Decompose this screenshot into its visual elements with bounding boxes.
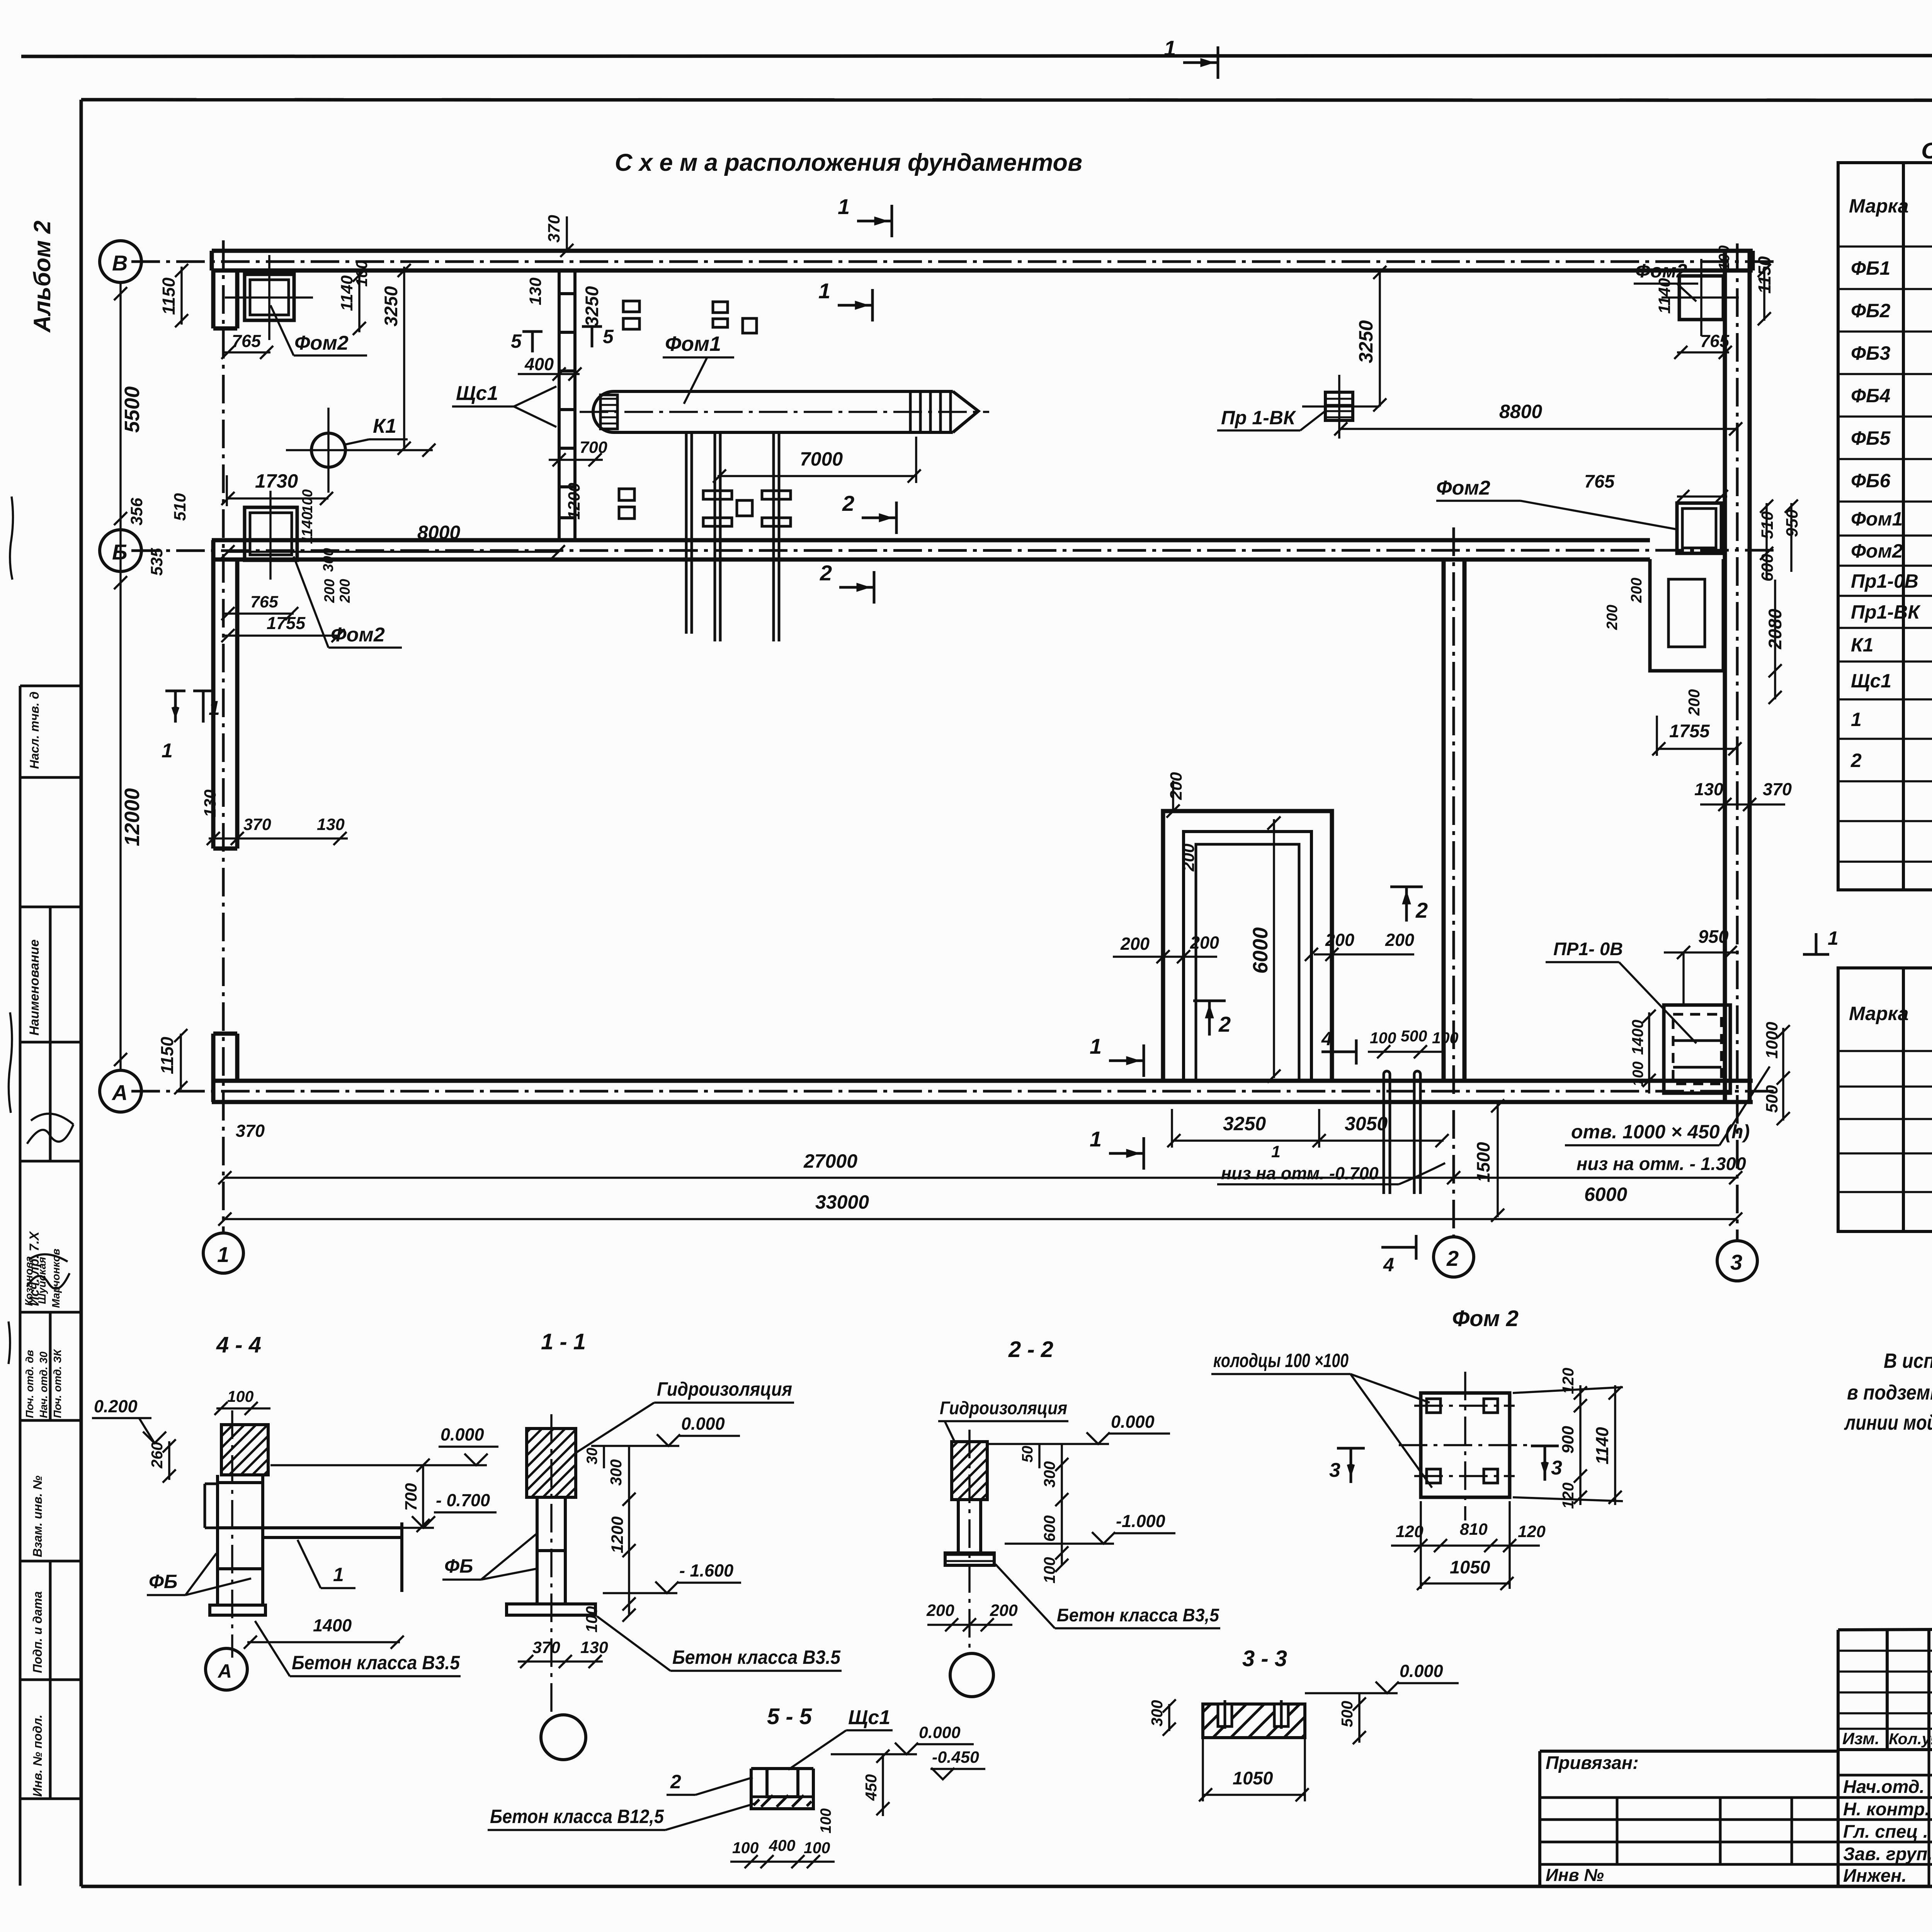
svg-text:Щс1: Щс1 — [848, 1706, 890, 1729]
dims top right: 1140,100,765,1150 — [1655, 245, 1774, 351]
svg-text:300: 300 — [1041, 1461, 1058, 1488]
svg-text:200: 200 — [337, 579, 353, 603]
fom2 detail square — [1421, 1393, 1510, 1497]
svg-text:0.200: 0.200 — [94, 1396, 138, 1416]
svg-text:200: 200 — [321, 579, 337, 603]
section mark 2 lower — [839, 571, 874, 604]
dim 1755 right — [1669, 721, 1710, 741]
svg-text:810: 810 — [1460, 1520, 1488, 1539]
svg-text:1755: 1755 — [267, 613, 306, 633]
svg-text:ФБ5: ФБ5 — [1851, 427, 1891, 449]
svg-text:765: 765 — [1584, 471, 1615, 492]
svg-text:6000: 6000 — [1249, 927, 1272, 974]
svg-text:200: 200 — [1628, 578, 1645, 603]
1-1 axis — [550, 1414, 553, 1714]
svg-text:1: 1 — [838, 194, 850, 219]
4-4 dim 1400 — [313, 1616, 352, 1635]
svg-text:0.000: 0.000 — [1400, 1661, 1443, 1681]
svg-text:8800: 8800 — [1499, 401, 1542, 422]
2-2 dims 200 200 — [926, 1601, 1018, 1620]
svg-text:1: 1 — [333, 1564, 344, 1585]
dim 765 right — [1584, 471, 1615, 492]
svg-text:Пр1-0В: Пр1-0В — [1851, 570, 1918, 592]
spec table 2 grid — [1838, 968, 1932, 1231]
1-1 level -1.600 — [679, 1561, 733, 1580]
svg-text:0.000: 0.000 — [440, 1425, 484, 1444]
svg-text:200: 200 — [1685, 689, 1703, 716]
svg-text:700: 700 — [580, 438, 607, 457]
svg-text:1200: 1200 — [565, 483, 583, 520]
spec table grid — [1838, 163, 1932, 890]
right wall — [1725, 251, 1750, 1102]
drain channels — [1384, 1071, 1420, 1194]
4-4 concrete note — [292, 1652, 460, 1673]
svg-text:370: 370 — [236, 1121, 265, 1141]
2-2 wall hatched — [952, 1442, 987, 1500]
pit Пр2 below Б at axis 3 — [1650, 559, 1723, 671]
middle pit 6000 dim — [1267, 816, 1281, 1083]
anchor bolt 1 — [703, 432, 732, 641]
svg-text:3250: 3250 — [1355, 320, 1377, 363]
svg-text:130: 130 — [317, 815, 345, 834]
2-2 concrete note — [1057, 1605, 1219, 1625]
svg-text:370: 370 — [1763, 779, 1792, 799]
svg-text:7000: 7000 — [800, 448, 843, 470]
dim 33000 — [815, 1191, 869, 1213]
hanging tie rods below Фом1 — [686, 432, 692, 634]
svg-text:К1: К1 — [373, 415, 396, 437]
5-5 pos 2 label — [670, 1771, 681, 1793]
svg-text:4: 4 — [1321, 1028, 1332, 1049]
svg-text:1000: 1000 — [1763, 1022, 1781, 1059]
svg-text:К1: К1 — [1851, 634, 1874, 656]
svg-text:450: 450 — [862, 1774, 880, 1801]
dim 7000 — [800, 448, 843, 470]
svg-text:100: 100 — [804, 1839, 830, 1857]
svg-text:А: А — [217, 1660, 232, 1682]
fom2 dims bottom — [1396, 1520, 1546, 1541]
4-4 axis dashdot — [231, 1410, 233, 1658]
svg-text:1: 1 — [818, 279, 830, 303]
1-1 level 0.000 — [681, 1414, 725, 1434]
pit Пр1-0В inner dashed with bars — [1673, 1014, 1721, 1084]
svg-text:Щс1: Щс1 — [456, 382, 498, 405]
svg-text:ФБ3: ФБ3 — [1851, 342, 1890, 364]
svg-text:ФБ2: ФБ2 — [1851, 300, 1890, 321]
svg-text:Зав. груп.: Зав. груп. — [1843, 1844, 1932, 1864]
svg-text:500: 500 — [1401, 1027, 1427, 1045]
svg-text:3: 3 — [1730, 1250, 1742, 1274]
fom2 section marks 3 — [1337, 1448, 1365, 1483]
svg-text:535: 535 — [148, 548, 166, 576]
dim 130 370 right — [1694, 779, 1792, 799]
svg-text:2: 2 — [820, 561, 832, 585]
axis circle А — [100, 1070, 141, 1112]
Фом1 axis line — [580, 411, 989, 413]
dim 8000 — [417, 522, 460, 543]
svg-text:- 0.700: - 0.700 — [436, 1490, 490, 1510]
svg-text:100: 100 — [1716, 245, 1733, 270]
dims right of Пр1-0В: 1000 500 — [1763, 1022, 1781, 1113]
section mark 1 pair left — [165, 691, 185, 723]
svg-text:1 - 1: 1 - 1 — [541, 1329, 586, 1354]
svg-text:Бетон класса В3,5: Бетон класса В3,5 — [1057, 1605, 1219, 1625]
svg-text:100: 100 — [818, 1808, 834, 1833]
svg-text:Нач. отд. 30: Нач. отд. 30 — [37, 1351, 49, 1418]
svg-text:27000: 27000 — [803, 1150, 857, 1172]
shield Щс1 strip — [559, 270, 575, 540]
Щс1 label — [456, 382, 498, 405]
frame left border — [80, 100, 83, 1886]
svg-text:Бетон класса В3.5: Бетон класса В3.5 — [292, 1652, 460, 1673]
dims around middle pit 200s — [1120, 772, 1414, 954]
middle pit outer wall — [1163, 811, 1332, 1081]
svg-text:370: 370 — [532, 1638, 560, 1657]
album label — [29, 221, 55, 333]
well K1 — [311, 433, 345, 467]
svg-text:2: 2 — [1218, 1012, 1231, 1036]
dim 3250 vertical right — [1355, 320, 1377, 363]
svg-text:200: 200 — [990, 1601, 1018, 1620]
svg-text:Фом2: Фом2 — [1851, 540, 1903, 562]
svg-text:3: 3 — [1551, 1457, 1562, 1479]
staff rows grid — [1838, 1750, 1932, 1887]
1-1 bottom circle — [541, 1715, 586, 1760]
svg-text:300: 300 — [607, 1459, 625, 1486]
Фом1 left grate — [600, 395, 617, 429]
svg-text:400: 400 — [769, 1837, 796, 1854]
4-4 base plate — [210, 1605, 265, 1615]
1-1 hydro label — [657, 1378, 792, 1400]
svg-text:1: 1 — [162, 740, 173, 762]
svg-text:ФБ6: ФБ6 — [1851, 470, 1891, 492]
dims near strip: 370,130,3250,400,700,1200 — [524, 215, 607, 520]
left axes dimension line 5500/12000 — [114, 282, 127, 1070]
svg-text:200: 200 — [1179, 844, 1198, 872]
axis 1 vertical — [222, 240, 225, 1233]
fom2 center lines — [1399, 1372, 1532, 1520]
dims near Б left — [128, 493, 306, 633]
3-3 dims 300 500 — [1148, 1700, 1356, 1727]
axis circle 1 — [203, 1233, 243, 1273]
svg-text:Марка: Марка — [1849, 195, 1908, 217]
2-2 level -1.000 — [1116, 1511, 1165, 1531]
svg-text:Гидроизоляция: Гидроизоляция — [940, 1398, 1067, 1418]
svg-text:200: 200 — [1190, 933, 1219, 952]
svg-text:400: 400 — [524, 354, 554, 374]
svg-text:130: 130 — [201, 789, 219, 817]
dims right pit: 510 950 600 2080 200 — [1604, 509, 1801, 716]
1-1 wall below — [527, 1497, 576, 1604]
axis circle 3 — [1717, 1241, 1757, 1281]
fom2 label right — [1436, 477, 1490, 499]
svg-text:3: 3 — [1329, 1459, 1340, 1481]
svg-text:-1.000: -1.000 — [1116, 1511, 1165, 1531]
axis circle B — [100, 241, 141, 282]
svg-text:Кол.уч.: Кол.уч. — [1889, 1730, 1932, 1748]
svg-text:В: В — [112, 251, 128, 275]
svg-text:А: А — [111, 1080, 128, 1105]
svg-text:1: 1 — [1090, 1127, 1102, 1151]
section 1-1 title — [541, 1329, 586, 1354]
svg-text:200: 200 — [1325, 930, 1354, 950]
svg-text:Взам. инв. №: Взам. инв. № — [31, 1475, 44, 1557]
svg-text:120: 120 — [1396, 1522, 1423, 1541]
svg-text:1: 1 — [1271, 1143, 1281, 1161]
svg-text:1150: 1150 — [159, 277, 179, 315]
svg-text:100: 100 — [583, 1606, 600, 1633]
svg-text:3250: 3250 — [381, 286, 401, 327]
spec table rows text — [1850, 257, 1932, 853]
fom2 label top left — [294, 332, 349, 354]
section 5-5 title — [767, 1704, 812, 1729]
Пр1-ВК label — [1221, 407, 1296, 429]
svg-text:5: 5 — [603, 326, 614, 347]
svg-text:Инв №: Инв № — [1546, 1865, 1604, 1885]
1-1 dims 370 130 — [532, 1638, 608, 1657]
4-4 hydro hatched block — [221, 1425, 268, 1475]
scan streak marks left margin — [9, 497, 13, 1364]
dims 3250 3050 — [1223, 1113, 1388, 1134]
svg-text:765: 765 — [1700, 331, 1730, 351]
svg-text:Спецификация к схеме распо: Спецификация к схеме расположения фундам… — [1921, 138, 1932, 163]
section marks 2 at pit — [1193, 1001, 1226, 1036]
1-1 base plate — [507, 1604, 595, 1615]
svg-text:ФБ1: ФБ1 — [1851, 257, 1890, 279]
svg-text:100: 100 — [227, 1388, 254, 1405]
dims near B left: 1150,765,1140,100,3250 — [159, 260, 401, 351]
4-4 dim 700 — [402, 1483, 420, 1511]
3-3 channels — [1218, 1700, 1288, 1731]
svg-text:линии мойки и фундамент п: линии мойки и фундамент под контейнер пр… — [1844, 1411, 1932, 1434]
4-4 level 0.000 — [440, 1425, 484, 1444]
2-2 bottom circle — [950, 1653, 993, 1697]
svg-text:100: 100 — [1370, 1029, 1396, 1047]
svg-text:1200: 1200 — [608, 1516, 627, 1553]
svg-text:3250: 3250 — [1223, 1113, 1266, 1134]
svg-text:356: 356 — [128, 497, 146, 526]
svg-text:Гл. спец .: Гл. спец . — [1843, 1821, 1928, 1842]
section marks 1 bottom — [1109, 1044, 1144, 1077]
wall along axis Б — [212, 540, 1650, 560]
svg-text:1050: 1050 — [1450, 1557, 1490, 1577]
svg-text:2: 2 — [842, 491, 854, 515]
svg-text:1: 1 — [1851, 709, 1862, 730]
svg-text:В используемом типовом п: В используемом типовом проекте очистных … — [1884, 1349, 1932, 1372]
spec table 2 header — [1849, 992, 1932, 1034]
svg-text:Инжен.: Инжен. — [1843, 1865, 1906, 1886]
wells label — [1213, 1350, 1349, 1371]
svg-text:Пр 1-ВК: Пр 1-ВК — [1221, 407, 1296, 429]
1-1 ФБ label — [444, 1555, 473, 1577]
fom2 foundation top left — [245, 274, 294, 320]
sidebar rotated labels — [23, 692, 63, 1797]
dim 8800 — [1499, 401, 1542, 422]
left bottom dims 1150 370 130 — [157, 789, 345, 1141]
svg-text:2: 2 — [670, 1771, 681, 1793]
1-1 concrete note — [672, 1646, 841, 1668]
svg-text:3 - 3: 3 - 3 — [1242, 1646, 1287, 1671]
svg-text:765: 765 — [250, 593, 279, 611]
svg-text:100: 100 — [299, 489, 315, 513]
fom2 label left Б — [331, 624, 385, 646]
svg-text:в подземном приемном рез: в подземном приемном резервуаре. отметку… — [1847, 1381, 1932, 1404]
svg-text:0.000: 0.000 — [681, 1414, 725, 1434]
4-4 column — [218, 1475, 263, 1605]
internal wall on axis 2 — [1444, 560, 1464, 1081]
small dims column near fom2 Б — [299, 489, 353, 603]
svg-text:2: 2 — [1446, 1246, 1459, 1270]
svg-text:5 - 5: 5 - 5 — [767, 1704, 812, 1729]
svg-text:Козанова: Козанова — [23, 1256, 35, 1306]
fom2 wells — [1427, 1399, 1498, 1483]
Фом1 label — [665, 332, 721, 355]
svg-text:1: 1 — [1828, 927, 1838, 949]
svg-text:200: 200 — [1120, 934, 1150, 954]
svg-text:ФБ: ФБ — [444, 1555, 473, 1577]
axis 2 vertical — [1452, 527, 1455, 1236]
svg-text:Фом 2: Фом 2 — [1452, 1306, 1519, 1331]
small foundation blocks above Фом1 — [623, 301, 757, 333]
frame top border — [81, 100, 1932, 100]
svg-text:2: 2 — [1415, 898, 1428, 922]
label Пр1-0В — [1553, 939, 1623, 959]
svg-text:3050: 3050 — [1345, 1113, 1388, 1134]
axis Б horizontal — [131, 550, 1777, 551]
5-5 dims 450 100 — [818, 1774, 880, 1833]
svg-text:Альбом 2: Альбом 2 — [29, 221, 55, 333]
svg-text:100: 100 — [1630, 1061, 1646, 1087]
dim 1730 — [255, 470, 298, 492]
left box labels — [1546, 1752, 1639, 1885]
top wall along axis B — [212, 251, 1753, 270]
svg-text:Изм.: Изм. — [1842, 1730, 1879, 1748]
svg-text:700: 700 — [402, 1483, 420, 1511]
svg-text:300: 300 — [320, 548, 336, 572]
svg-text:Марка: Марка — [1849, 1003, 1908, 1024]
svg-text:200: 200 — [1604, 605, 1621, 630]
section mark 5 pair — [522, 327, 602, 352]
svg-text:4: 4 — [1383, 1254, 1394, 1276]
title block header row Изм — [1838, 1748, 1932, 1751]
svg-text:Фом2: Фом2 — [294, 332, 349, 354]
svg-text:33000: 33000 — [815, 1191, 869, 1213]
svg-text:ПР1- 0В: ПР1- 0В — [1553, 939, 1623, 959]
Фом1 right hatch — [910, 391, 951, 432]
left wall mid segment — [213, 540, 237, 849]
K1 label — [373, 415, 396, 437]
3-3 block — [1203, 1704, 1305, 1738]
2-2 level 0.000 — [1111, 1412, 1155, 1432]
svg-text:Фом1: Фом1 — [665, 332, 721, 355]
3-3 level 0.000 — [1400, 1661, 1443, 1681]
5-5 channel block — [751, 1769, 813, 1809]
svg-text:низ на отм. - 1.300: низ на отм. - 1.300 — [1577, 1153, 1746, 1174]
svg-text:1400: 1400 — [1629, 1020, 1646, 1055]
svg-text:0.000: 0.000 — [1111, 1412, 1155, 1432]
svg-text:510: 510 — [171, 493, 189, 521]
section mark 2 below Б right — [862, 502, 896, 534]
dim 100 500 100 near axis2 — [1370, 1027, 1459, 1047]
2-2 base plate — [945, 1553, 994, 1565]
svg-text:370: 370 — [243, 815, 271, 834]
svg-text:765: 765 — [232, 331, 261, 351]
svg-text:300: 300 — [1148, 1700, 1166, 1726]
svg-text:колодцы 100 ×100: колодцы 100 ×100 — [1213, 1350, 1349, 1371]
svg-text:1: 1 — [217, 1242, 229, 1267]
svg-text:Бетон класса В3.5: Бетон класса В3.5 — [672, 1646, 841, 1668]
plan title — [615, 149, 1082, 176]
pit Пр1-0В outer — [1664, 1005, 1730, 1093]
svg-text:Фом1: Фом1 — [1851, 508, 1903, 530]
svg-text:1140: 1140 — [1655, 278, 1674, 314]
dims left of Пр1-0В: 1400 100 — [1629, 1020, 1646, 1087]
sidebar signature scribbles — [27, 1114, 73, 1289]
axis 3 vertical — [1736, 243, 1739, 1241]
svg-text:1400: 1400 — [313, 1616, 352, 1635]
svg-text:Фом2: Фом2 — [1436, 477, 1490, 499]
4-4 pos 1 label — [333, 1564, 344, 1585]
svg-text:1730: 1730 — [255, 470, 298, 492]
section 2-2 title — [1008, 1337, 1053, 1362]
4-4 dims 100 260 — [148, 1388, 254, 1469]
svg-text:С х е м а расположения фу: С х е м а расположения фундаментов — [615, 149, 1082, 176]
svg-text:200: 200 — [926, 1601, 954, 1620]
foundation Фом1 pill — [593, 391, 978, 432]
svg-text:12000: 12000 — [121, 788, 144, 846]
svg-text:1140: 1140 — [1592, 1427, 1612, 1464]
svg-text:Н. контр.: Н. контр. — [1843, 1799, 1930, 1819]
section mark 1 below top wall — [838, 289, 872, 321]
svg-text:260: 260 — [148, 1442, 166, 1469]
svg-text:1755: 1755 — [1669, 721, 1710, 741]
2-2 dims 50 300 600 100 — [1019, 1446, 1058, 1583]
note низ на отм -0.700 — [1221, 1143, 1379, 1183]
4-4 elevation 0.200 — [94, 1396, 138, 1416]
svg-text:600: 600 — [1041, 1515, 1058, 1542]
fom2 foundation left at Б — [245, 507, 297, 560]
5-5 bottom dims 100 400 100 — [732, 1837, 830, 1857]
bottom wall along axis А — [212, 1081, 1753, 1102]
svg-text:6000: 6000 — [1584, 1184, 1627, 1205]
svg-text:120: 120 — [1559, 1482, 1577, 1509]
dim 27000 and 6000 — [803, 1150, 1627, 1205]
svg-text:200: 200 — [1167, 772, 1185, 800]
svg-text:Подп. и дата: Подп. и дата — [31, 1591, 44, 1673]
svg-text:950: 950 — [1698, 926, 1728, 947]
svg-text:1: 1 — [1164, 36, 1176, 60]
svg-text:Щс1: Щс1 — [1851, 670, 1891, 692]
svg-text:Гидроизоляция: Гидроизоляция — [657, 1378, 792, 1400]
svg-text:5: 5 — [511, 330, 522, 352]
fom2 foundation right of axis 2 at Б — [1677, 503, 1721, 553]
axis B horizontal — [131, 260, 1777, 263]
4-4 axis circle A — [206, 1648, 247, 1690]
svg-text:- 1.600: - 1.600 — [679, 1561, 733, 1580]
4-4 left ledge — [205, 1484, 218, 1528]
2-2 wall below — [952, 1500, 987, 1553]
spec table header — [1849, 184, 1932, 228]
spec table title — [1921, 138, 1932, 163]
svg-text:4 - 4: 4 - 4 — [216, 1332, 261, 1357]
svg-text:130: 130 — [580, 1638, 608, 1657]
left stamp column — [20, 686, 81, 1886]
dim 950 above pit — [1698, 926, 1728, 947]
svg-text:1: 1 — [1090, 1034, 1102, 1058]
note paragraph — [1844, 1349, 1932, 1434]
svg-text:130: 130 — [526, 277, 545, 305]
frame bottom border — [81, 1885, 1932, 1888]
